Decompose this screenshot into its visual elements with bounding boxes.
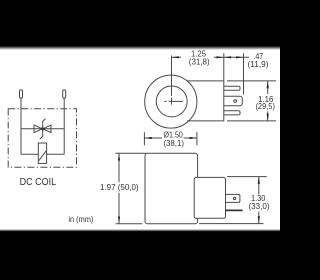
- arrowhead dim 1.97 down: [118, 217, 120, 224]
- dim 1.16 top extension line: [227, 80, 276, 82]
- coil actuator diagonal: [39, 151, 46, 161]
- svg-text:DC COIL: DC COIL: [20, 177, 57, 188]
- top view: middle tab: [224, 96, 243, 105]
- TVS diode right triangle: [43, 125, 51, 133]
- arrowhead dim 1.16 up: [267, 81, 269, 88]
- dim 1.30 bottom extension: [199, 223, 264, 225]
- TVS diode zener bar: [40, 119, 46, 139]
- top view: body top edge: [187, 80, 224, 82]
- wire: right lead: [63, 98, 65, 154]
- top view: body bottom edge: [187, 120, 224, 122]
- wire: left lead: [20, 98, 22, 154]
- dim 1.30 line lower: [258, 212, 260, 224]
- schematic: terminal pin 1: [20, 90, 23, 98]
- dim dia 1.50 line right: [184, 137, 197, 139]
- dim 1.30 top extension: [227, 176, 267, 178]
- arrowhead dim dia1.50 right: [190, 137, 197, 139]
- svg-text:(38,1): (38,1): [163, 139, 184, 148]
- dim dia 1.50 right extension: [196, 132, 198, 145]
- side view: upper terminal: [226, 194, 240, 202]
- node: TVS center junction dot: [41, 127, 44, 130]
- top view: inner circle: [156, 86, 187, 117]
- svg-text:(29,5): (29,5): [255, 102, 275, 111]
- svg-text:(33,0): (33,0): [249, 202, 270, 211]
- arrowhead dim dia1.50 left: [145, 137, 152, 139]
- arrowhead dim 1.16 down: [267, 114, 269, 121]
- top view: upper spade terminal: [224, 86, 240, 90]
- dim 1.16 line upper: [267, 81, 269, 94]
- arrowhead dim 1.97 up: [118, 154, 120, 161]
- dash-dot enclosure box: [8, 109, 76, 168]
- dim .47 right extension line: [243, 53, 245, 94]
- dim 1.25 line right segment: [214, 56, 224, 58]
- side view: body: [145, 153, 198, 224]
- dim 1.30 line upper: [258, 177, 260, 195]
- wire: bottom right segment: [47, 153, 65, 155]
- side view: lower terminal blade: [226, 209, 243, 211]
- wire: upper horizontal: [21, 128, 64, 130]
- dim 1.97 top extension: [116, 152, 147, 154]
- svg-text:1.97 (50,0): 1.97 (50,0): [100, 183, 139, 192]
- top view: center line vertical (extension of dim 1.25): [171, 56, 173, 105]
- dim 1.16 bottom extension line: [227, 120, 276, 122]
- side view: upper terminal hole: [233, 197, 235, 199]
- dim 1.25 right extension line: [223, 53, 225, 81]
- dim .47 line with tail: [224, 56, 249, 58]
- schematic: terminal pin 2: [63, 90, 66, 98]
- white drawing band with feathered edges: [0, 46, 280, 50]
- dim dia 1.50 line left: [144, 137, 162, 139]
- dim 1.97 bottom extension: [116, 223, 143, 225]
- svg-text:(11,9): (11,9): [248, 60, 269, 69]
- wire: bottom left segment: [21, 153, 38, 155]
- top view: body right edge: [223, 81, 225, 121]
- dim 1.97 line lower: [118, 193, 120, 224]
- TVS diode left triangle: [34, 125, 42, 133]
- dim 1.16 line lower: [267, 112, 269, 121]
- top view: lower spade terminal: [224, 111, 240, 115]
- dim dia 1.50 left extension: [143, 132, 145, 145]
- arrowhead dim .47 left: [224, 56, 231, 58]
- dim 1.97 line upper: [118, 153, 120, 182]
- arrowhead dim .47 right: [236, 56, 243, 58]
- top view: outer circle: [145, 75, 197, 128]
- side view: connector housing: [194, 177, 225, 218]
- svg-text:in (mm): in (mm): [68, 215, 93, 224]
- svg-text:(31,8): (31,8): [189, 58, 210, 67]
- top view: middle tab hole: [234, 100, 237, 103]
- arrowhead dim 1.30 up: [258, 177, 260, 184]
- arrowhead dim 1.30 down: [258, 216, 260, 223]
- dim 1.25 line left segment: [172, 56, 182, 58]
- arrowhead dim 1.25 right: [217, 56, 224, 58]
- arrowhead dim 1.25 left: [172, 56, 179, 58]
- coil actuator rectangle: [38, 143, 46, 163]
- top view: center crosshair horizontal: [164, 100, 183, 102]
